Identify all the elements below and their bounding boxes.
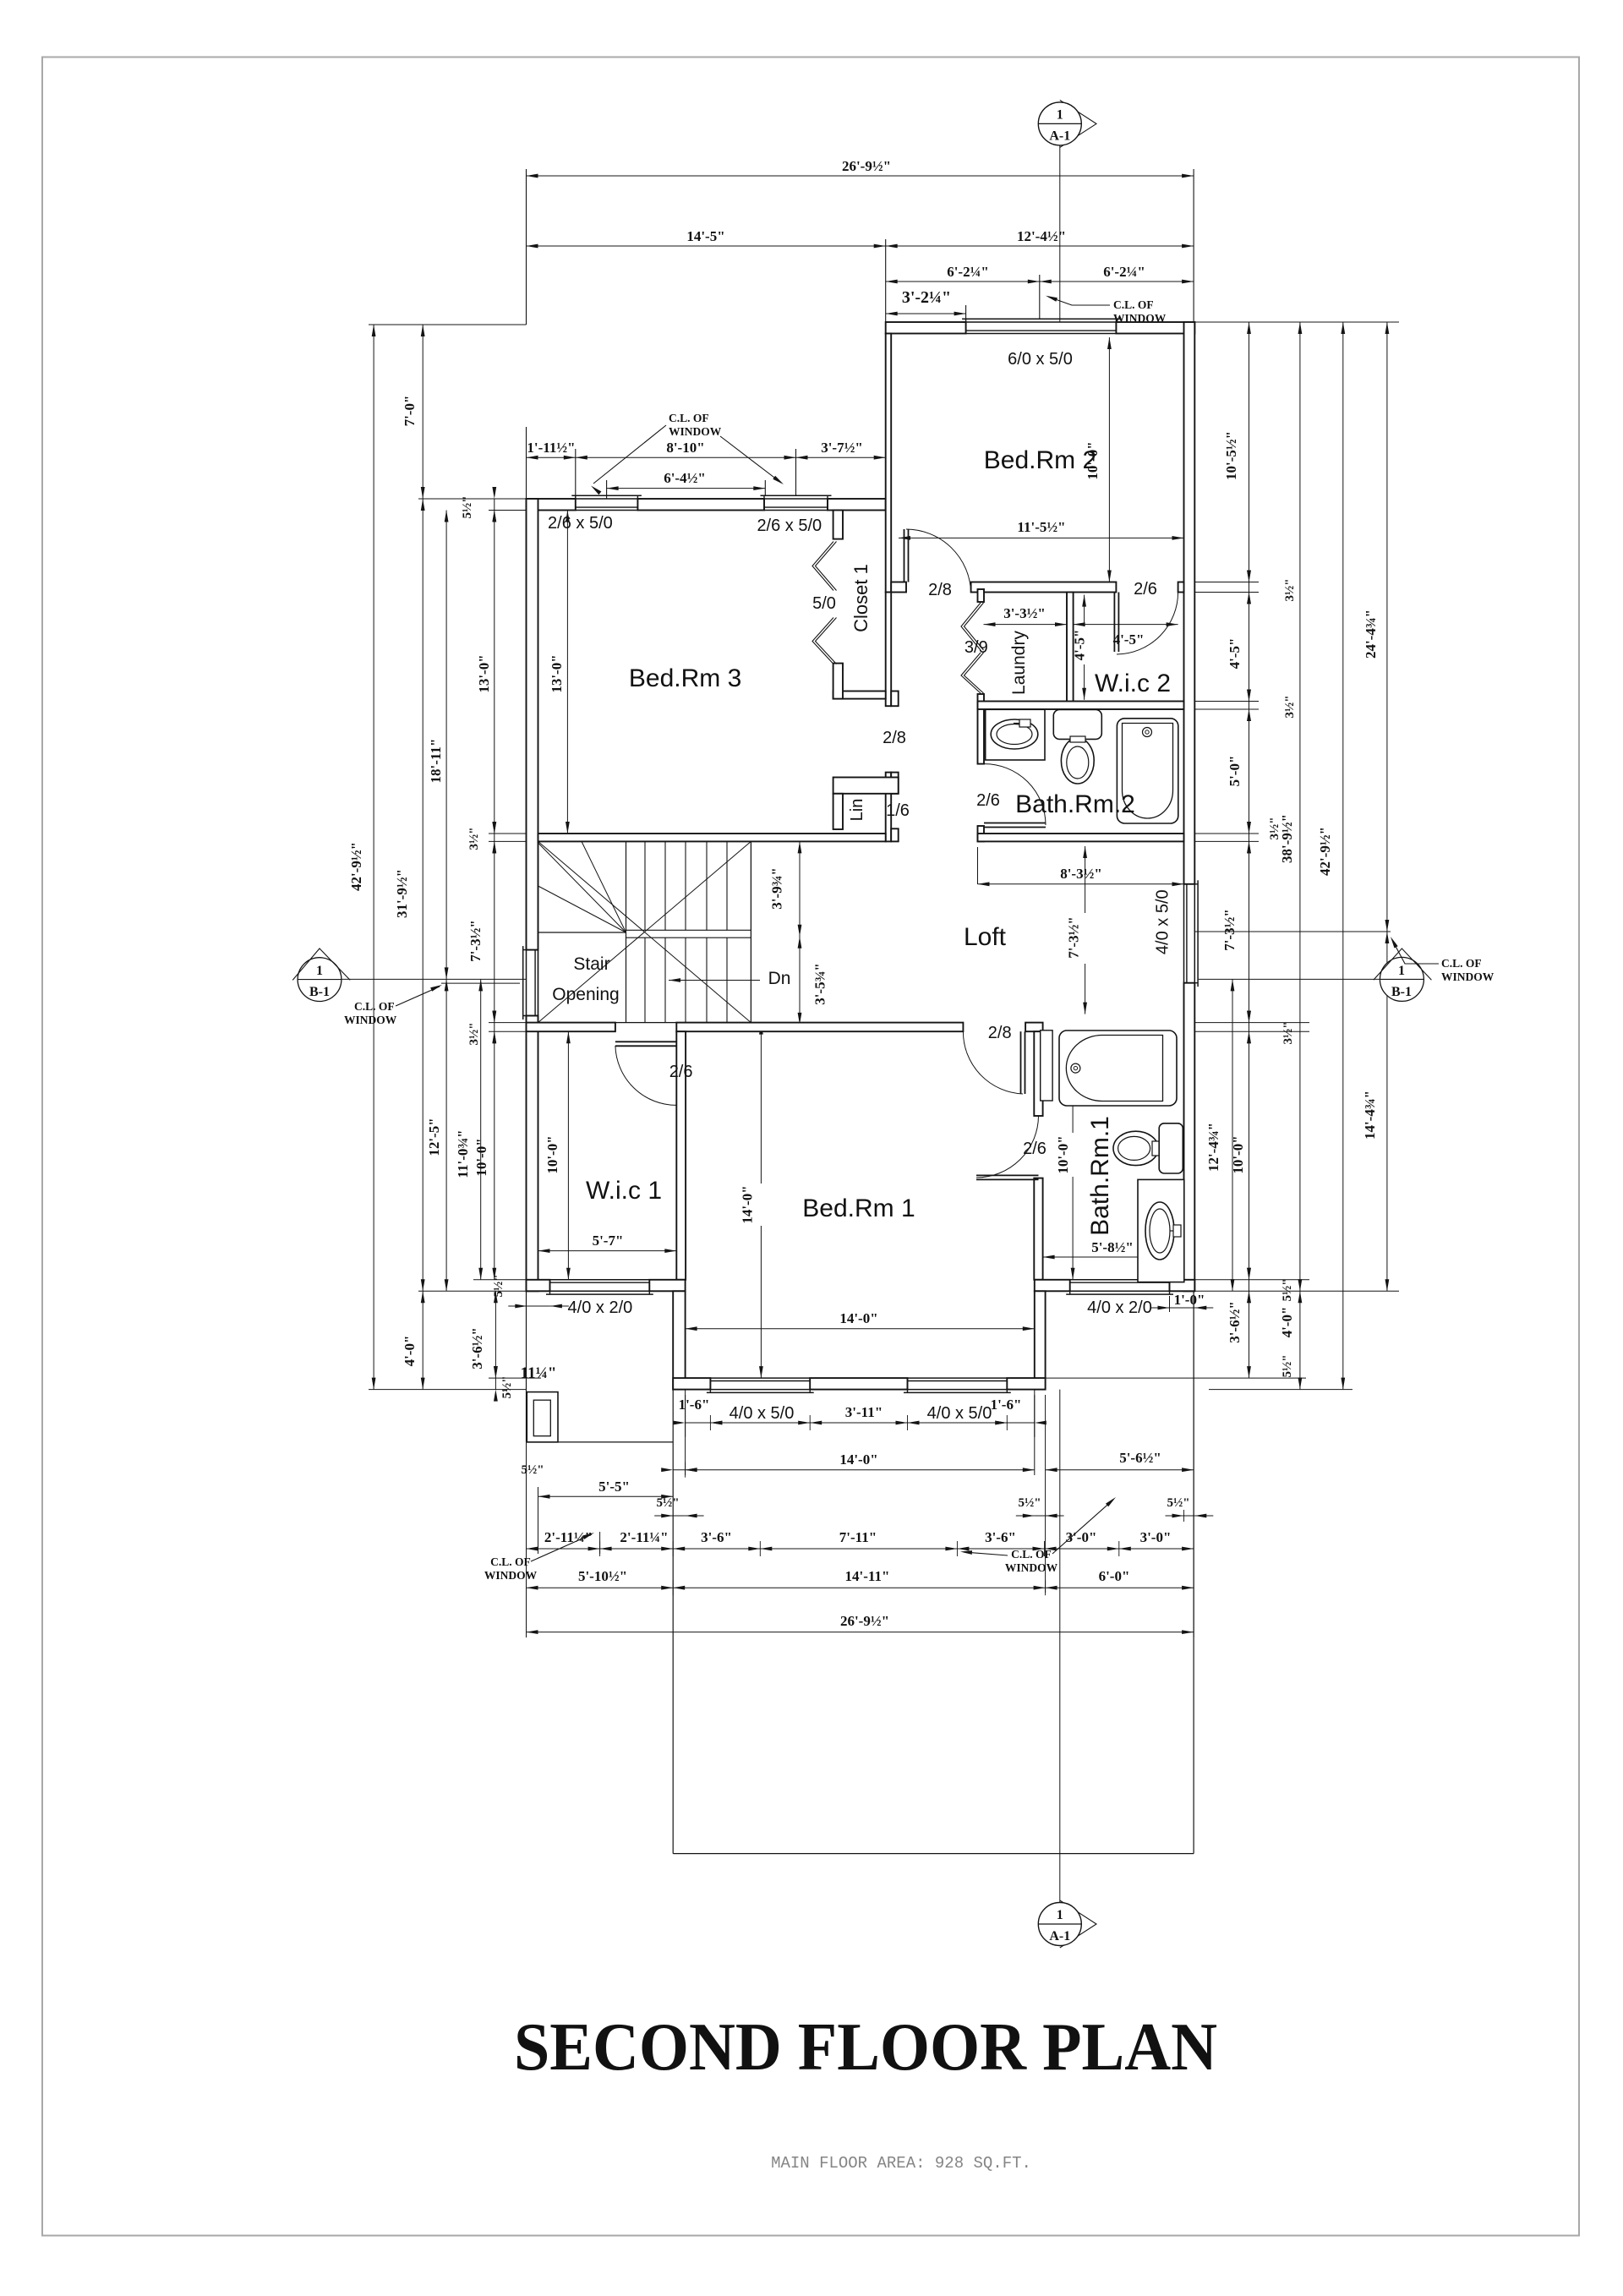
svg-text:6'-0": 6'-0" <box>1099 1568 1130 1584</box>
svg-text:4/0 x 5/0: 4/0 x 5/0 <box>1153 889 1172 954</box>
svg-text:C.L. OF: C.L. OF <box>1441 957 1482 970</box>
svg-text:4/0 x 5/0: 4/0 x 5/0 <box>927 1404 992 1423</box>
svg-text:26'-9½": 26'-9½" <box>840 1613 889 1629</box>
svg-text:A-1: A-1 <box>1049 1929 1070 1943</box>
svg-text:B-1: B-1 <box>309 985 330 999</box>
svg-text:MAIN FLOOR AREA: 928 SQ.FT.: MAIN FLOOR AREA: 928 SQ.FT. <box>771 2154 1031 2173</box>
svg-text:12'-5": 12'-5" <box>426 1118 442 1156</box>
svg-text:42'-9½": 42'-9½" <box>348 842 364 891</box>
svg-text:24'-4¾": 24'-4¾" <box>1363 610 1379 659</box>
svg-text:7'-3½": 7'-3½" <box>1066 916 1082 959</box>
svg-text:5½": 5½" <box>1281 1278 1294 1301</box>
svg-text:14'-0": 14'-0" <box>740 1185 756 1223</box>
svg-text:5'-0": 5'-0" <box>1227 756 1243 787</box>
svg-text:5'-6½": 5'-6½" <box>1119 1450 1161 1466</box>
svg-text:5'-8½": 5'-8½" <box>1091 1239 1134 1255</box>
svg-text:3½": 3½" <box>1283 695 1297 718</box>
svg-text:11¼": 11¼" <box>521 1364 557 1382</box>
svg-text:2/8: 2/8 <box>928 581 952 599</box>
svg-text:Bed.Rm 1: Bed.Rm 1 <box>802 1194 915 1222</box>
svg-text:WINDOW: WINDOW <box>1441 970 1495 983</box>
svg-text:42'-9½": 42'-9½" <box>1317 827 1333 876</box>
svg-text:C.L. OF: C.L. OF <box>1113 298 1154 311</box>
svg-text:3'-9¾": 3'-9¾" <box>769 867 785 910</box>
svg-text:5½": 5½" <box>1018 1496 1041 1510</box>
svg-text:5½": 5½" <box>1167 1496 1189 1510</box>
svg-text:C.L. OF: C.L. OF <box>1011 1548 1052 1561</box>
svg-text:2/8: 2/8 <box>988 1024 1012 1042</box>
svg-text:Opening: Opening <box>552 985 619 1004</box>
svg-text:8'-3½": 8'-3½" <box>1060 866 1102 882</box>
svg-text:10'-5½": 10'-5½" <box>1223 431 1239 480</box>
svg-text:W.i.c 1: W.i.c 1 <box>586 1177 662 1205</box>
svg-text:WINDOW: WINDOW <box>344 1014 397 1026</box>
svg-text:1: 1 <box>1057 1908 1063 1922</box>
svg-text:2/6: 2/6 <box>669 1063 693 1081</box>
svg-text:14'-0": 14'-0" <box>839 1451 877 1468</box>
svg-text:7'-3½": 7'-3½" <box>1221 909 1238 951</box>
svg-text:3'-6½": 3'-6½" <box>469 1327 485 1369</box>
svg-text:6'-4½": 6'-4½" <box>664 470 706 486</box>
svg-text:Loft: Loft <box>964 923 1007 951</box>
svg-text:3/9: 3/9 <box>965 638 988 657</box>
svg-text:7'-11": 7'-11" <box>839 1529 877 1545</box>
svg-text:13'-0": 13'-0" <box>476 654 492 692</box>
svg-text:18'-11": 18'-11" <box>428 739 444 784</box>
svg-text:7'-0": 7'-0" <box>402 396 418 427</box>
svg-text:5/0: 5/0 <box>812 594 836 613</box>
svg-text:1: 1 <box>1057 107 1063 122</box>
svg-text:WINDOW: WINDOW <box>484 1569 538 1582</box>
svg-text:2/8: 2/8 <box>883 729 906 747</box>
svg-text:10'-0": 10'-0" <box>1055 1135 1071 1173</box>
svg-text:Dn: Dn <box>768 969 791 988</box>
svg-text:4/0 x 5/0: 4/0 x 5/0 <box>730 1404 795 1423</box>
svg-text:3'-5¾": 3'-5¾" <box>812 963 828 1005</box>
svg-text:3½": 3½" <box>1283 578 1297 601</box>
svg-text:13'-0": 13'-0" <box>549 654 565 692</box>
svg-text:1'-6": 1'-6" <box>991 1397 1022 1413</box>
svg-text:Bath.Rm.2: Bath.Rm.2 <box>1015 790 1135 818</box>
svg-text:4'-5": 4'-5" <box>1113 631 1145 648</box>
svg-text:C.L. OF: C.L. OF <box>354 1000 395 1013</box>
svg-text:26'-9½": 26'-9½" <box>842 158 891 174</box>
svg-text:14'-11": 14'-11" <box>845 1568 890 1584</box>
svg-text:3'-3½": 3'-3½" <box>1003 605 1046 621</box>
svg-text:31'-9½": 31'-9½" <box>394 869 410 918</box>
svg-text:3½": 3½" <box>467 827 481 850</box>
svg-text:C.L. OF: C.L. OF <box>490 1555 531 1568</box>
svg-text:14'-0": 14'-0" <box>839 1310 877 1326</box>
svg-text:4/0 x 2/0: 4/0 x 2/0 <box>568 1298 633 1317</box>
svg-text:3'-6": 3'-6" <box>985 1529 1016 1545</box>
svg-text:Laundry: Laundry <box>1009 631 1029 695</box>
svg-text:4/0 x 2/0: 4/0 x 2/0 <box>1087 1298 1152 1317</box>
svg-text:Stair: Stair <box>573 954 609 974</box>
svg-text:3'-11": 3'-11" <box>845 1404 883 1420</box>
svg-text:12'-4¾": 12'-4¾" <box>1205 1123 1221 1172</box>
svg-text:Lin: Lin <box>848 799 866 822</box>
svg-text:2/6 x 5/0: 2/6 x 5/0 <box>757 517 822 535</box>
svg-text:11'-0¾": 11'-0¾" <box>455 1129 471 1178</box>
svg-text:5½": 5½" <box>492 1274 505 1297</box>
svg-text:3'-6½": 3'-6½" <box>1227 1301 1243 1343</box>
svg-text:6/0 x 5/0: 6/0 x 5/0 <box>1008 350 1073 369</box>
svg-text:3'-7½": 3'-7½" <box>821 440 863 456</box>
svg-text:4'-0": 4'-0" <box>1279 1307 1295 1338</box>
svg-text:5½": 5½" <box>461 495 474 518</box>
svg-text:3'-2¼": 3'-2¼" <box>902 288 951 307</box>
svg-text:5½": 5½" <box>656 1496 679 1510</box>
svg-text:Bed.Rm 2: Bed.Rm 2 <box>984 446 1096 474</box>
svg-text:3'-6": 3'-6" <box>701 1529 732 1545</box>
svg-text:12'-4½": 12'-4½" <box>1017 228 1066 244</box>
svg-text:Bed.Rm 3: Bed.Rm 3 <box>629 664 741 692</box>
svg-text:A-1: A-1 <box>1049 128 1070 143</box>
svg-text:5'-5": 5'-5" <box>598 1479 630 1495</box>
svg-text:2'-11¼": 2'-11¼" <box>620 1529 668 1545</box>
svg-text:6'-2¼": 6'-2¼" <box>1103 264 1145 280</box>
svg-text:2/6 x 5/0: 2/6 x 5/0 <box>548 514 613 533</box>
svg-text:4'-0": 4'-0" <box>402 1336 418 1367</box>
svg-text:2/6: 2/6 <box>1023 1140 1046 1158</box>
svg-text:3½": 3½" <box>467 1022 481 1045</box>
svg-text:10'-0": 10'-0" <box>544 1135 560 1173</box>
svg-text:WINDOW: WINDOW <box>669 425 722 438</box>
svg-text:11'-5½": 11'-5½" <box>1017 519 1065 535</box>
svg-text:W.i.c 2: W.i.c 2 <box>1095 670 1171 697</box>
svg-text:1: 1 <box>1398 964 1405 978</box>
svg-text:6'-2¼": 6'-2¼" <box>947 264 989 280</box>
svg-text:38'-9½": 38'-9½" <box>1279 814 1295 863</box>
svg-text:5½": 5½" <box>521 1463 544 1477</box>
svg-text:1'-6": 1'-6" <box>679 1397 710 1413</box>
svg-text:2/6: 2/6 <box>976 791 1000 810</box>
svg-text:1'-0": 1'-0" <box>1174 1292 1205 1308</box>
svg-text:5'-10½": 5'-10½" <box>578 1568 627 1584</box>
svg-text:7'-3½": 7'-3½" <box>467 920 484 962</box>
svg-text:Bath.Rm.1: Bath.Rm.1 <box>1086 1116 1114 1236</box>
svg-text:5½": 5½" <box>1281 1354 1294 1377</box>
svg-text:10'-0": 10'-0" <box>473 1138 489 1176</box>
svg-text:C.L. OF: C.L. OF <box>669 412 709 424</box>
svg-text:5½": 5½" <box>500 1375 514 1398</box>
svg-text:1: 1 <box>316 964 323 978</box>
svg-text:4'-5": 4'-5" <box>1227 638 1243 670</box>
svg-text:1'-11½": 1'-11½" <box>527 440 575 456</box>
svg-text:B-1: B-1 <box>1391 985 1412 999</box>
svg-text:1/6: 1/6 <box>886 801 910 820</box>
svg-text:5'-7": 5'-7" <box>593 1233 624 1249</box>
svg-text:8'-10": 8'-10" <box>666 440 704 456</box>
svg-text:3'-0": 3'-0" <box>1140 1529 1172 1545</box>
svg-text:SECOND FLOOR PLAN: SECOND FLOOR PLAN <box>514 2009 1217 2085</box>
svg-text:Closet 1: Closet 1 <box>850 564 872 632</box>
svg-text:WINDOW: WINDOW <box>1005 1561 1058 1574</box>
svg-text:14'-4¾": 14'-4¾" <box>1362 1091 1378 1140</box>
svg-text:3½": 3½" <box>1281 1021 1295 1044</box>
svg-text:14'-5": 14'-5" <box>686 228 724 244</box>
svg-text:2/6: 2/6 <box>1134 580 1157 599</box>
